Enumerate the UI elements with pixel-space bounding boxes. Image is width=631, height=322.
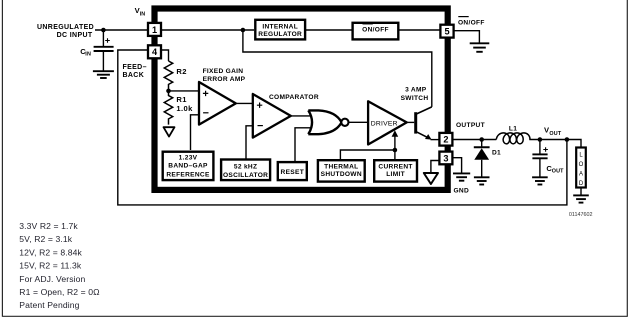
IC block outline U1 bbox=[155, 9, 448, 190]
bandgap reference block bbox=[163, 152, 214, 180]
op-amp error amplifier bbox=[199, 82, 236, 125]
capacitor CIN bbox=[80, 30, 113, 71]
op-amp comparator bbox=[253, 94, 291, 138]
svg-text:01147602: 01147602 bbox=[569, 212, 593, 218]
svg-text:DC INPUT: DC INPUT bbox=[57, 32, 93, 39]
svg-text:R1: R1 bbox=[176, 95, 187, 104]
svg-text:ON/OFF: ON/OFF bbox=[458, 19, 485, 26]
wire: pin 1 to internal regulator and on/off and pin 5 bbox=[161, 29, 254, 31]
ground: COUT bbox=[532, 177, 548, 184]
svg-text:LIMIT: LIMIT bbox=[386, 171, 405, 178]
node: VIN rail junction dot bbox=[241, 28, 246, 33]
svg-text:COMPARATOR: COMPARATOR bbox=[269, 94, 319, 101]
wire: error amp - input to bandgap bbox=[191, 115, 200, 150]
wire: VIN rail to 3 amp switch collector bbox=[243, 30, 432, 107]
node: input junction dot bbox=[101, 28, 106, 33]
inductor L1 bbox=[496, 125, 530, 143]
arrowhead into driver bbox=[392, 130, 399, 136]
wire: oscillator to comparator - input bbox=[246, 126, 253, 160]
svg-text:DRIVER: DRIVER bbox=[371, 120, 398, 127]
node: feedback junction bbox=[565, 137, 570, 142]
svg-text:UNREGULATED: UNREGULATED bbox=[37, 24, 94, 31]
label VOUT bbox=[544, 126, 562, 138]
ground: load bbox=[573, 195, 589, 202]
svg-text:R1 = Open, R2 = 0Ω: R1 = Open, R2 = 0Ω bbox=[19, 287, 100, 297]
svg-text:O: O bbox=[579, 162, 584, 168]
wire: error amp out to comparator bbox=[236, 102, 253, 104]
ground: D1 bbox=[474, 177, 490, 184]
svg-text:L1: L1 bbox=[509, 125, 517, 132]
svg-text:D: D bbox=[579, 181, 584, 187]
svg-text:15V, R2 = 11.3k: 15V, R2 = 11.3k bbox=[19, 261, 82, 271]
svg-text:1: 1 bbox=[152, 25, 157, 35]
wire: divider to error amp + input bbox=[169, 90, 200, 92]
svg-text:OUT: OUT bbox=[552, 169, 564, 175]
svg-text:BAND–GAP: BAND–GAP bbox=[168, 163, 208, 170]
svg-text:THERMAL: THERMAL bbox=[324, 164, 358, 171]
svg-text:OSCILLATOR: OSCILLATOR bbox=[223, 172, 268, 179]
capacitor COUT bbox=[532, 140, 564, 177]
load bbox=[576, 148, 586, 196]
svg-text:INTERNAL: INTERNAL bbox=[262, 23, 298, 30]
wire: output node bbox=[453, 139, 497, 141]
current limit block bbox=[374, 160, 417, 181]
transistor Q1 3 amp switch bbox=[407, 107, 440, 140]
ground: internal arrow near pin 3 bbox=[424, 173, 438, 184]
node: feedback divider junction bbox=[166, 89, 171, 94]
page frame left bbox=[1, 0, 3, 317]
driver buffer bbox=[368, 101, 407, 144]
wire: pin 5 to external ground bbox=[454, 31, 480, 43]
ground: pin 5 bbox=[470, 43, 490, 52]
node: protection junction dot bbox=[393, 148, 398, 153]
wire: feedback pin 4 to output node bbox=[118, 50, 567, 205]
pin 4 bbox=[148, 45, 161, 58]
svg-text:R2: R2 bbox=[176, 67, 187, 76]
svg-text:3.3V R2 = 1.7k: 3.3V R2 = 1.7k bbox=[19, 221, 78, 231]
svg-text:A: A bbox=[579, 172, 583, 178]
label: UNREGULATED DC INPUT bbox=[37, 24, 94, 39]
diode D1 bbox=[474, 140, 501, 177]
wire: reset to nor gate bbox=[295, 128, 312, 162]
svg-text:1.23V: 1.23V bbox=[179, 155, 198, 162]
svg-text:1.0k: 1.0k bbox=[176, 104, 193, 113]
svg-text:5: 5 bbox=[444, 27, 449, 37]
wire: pin 3 to external GND bbox=[453, 158, 462, 173]
label VIN bbox=[135, 6, 146, 18]
svg-text:BACK: BACK bbox=[123, 72, 145, 79]
svg-text:52 kHZ: 52 kHZ bbox=[234, 164, 257, 171]
label FIXED GAIN ERROR AMP bbox=[203, 68, 246, 83]
svg-text:ON/OFF: ON/OFF bbox=[362, 27, 389, 34]
svg-text:IN: IN bbox=[140, 11, 146, 17]
pin 2 bbox=[439, 133, 452, 146]
ground: analog arrow under R1 bbox=[164, 127, 175, 136]
svg-text:OUT: OUT bbox=[549, 131, 561, 137]
svg-text:4: 4 bbox=[152, 47, 158, 57]
node: diode junction bbox=[479, 137, 484, 142]
internal regulator block bbox=[255, 20, 305, 40]
svg-text:12V, R2 = 8.84k: 12V, R2 = 8.84k bbox=[19, 247, 82, 257]
svg-text:Patent Pending: Patent Pending bbox=[19, 300, 79, 310]
wire: pin 3 to internal ground arrow bbox=[431, 161, 440, 173]
svg-text:CURRENT: CURRENT bbox=[378, 164, 412, 171]
svg-text:GND: GND bbox=[454, 188, 470, 195]
svg-text:2: 2 bbox=[443, 135, 448, 145]
svg-text:SWITCH: SWITCH bbox=[401, 95, 429, 102]
oscillator block bbox=[221, 160, 270, 181]
thermal shutdown block bbox=[318, 160, 365, 181]
ground: CIN bbox=[93, 71, 114, 78]
svg-text:D1: D1 bbox=[492, 149, 501, 156]
svg-text:FIXED GAIN: FIXED GAIN bbox=[203, 68, 244, 75]
nor gate bbox=[308, 110, 348, 134]
wire: pin 4 to R2 bbox=[161, 50, 169, 61]
resistor R2 bbox=[164, 61, 187, 91]
svg-text:IN: IN bbox=[85, 52, 91, 58]
wire: comparator out to nor gate bbox=[291, 115, 312, 117]
on/off block bbox=[353, 23, 399, 40]
reset block bbox=[278, 162, 307, 180]
pin 3 bbox=[439, 152, 452, 165]
svg-text:REGULATOR: REGULATOR bbox=[258, 31, 302, 38]
svg-text:3 AMP: 3 AMP bbox=[405, 87, 427, 94]
svg-text:ERROR AMP: ERROR AMP bbox=[203, 76, 246, 83]
resistor R1 1.0k bbox=[164, 91, 193, 125]
svg-text:5V, R2 = 3.1k: 5V, R2 = 3.1k bbox=[19, 234, 72, 244]
wire: nor gate to driver bbox=[349, 121, 369, 123]
pin 5 bbox=[440, 25, 453, 38]
wire: thermal shutdown and current limit to driver bbox=[340, 135, 395, 160]
svg-text:OUTPUT: OUTPUT bbox=[456, 122, 485, 129]
notes text block bbox=[19, 221, 100, 310]
label FEED-BACK bbox=[123, 64, 147, 79]
wire: unregulated input to pin 1 bbox=[95, 29, 148, 31]
svg-text:3: 3 bbox=[443, 153, 448, 163]
svg-text:RESET: RESET bbox=[281, 169, 304, 176]
label 3 AMP SWITCH bbox=[401, 87, 429, 103]
ground: pin 3 external bbox=[453, 173, 470, 194]
node: cout junction bbox=[538, 137, 543, 142]
svg-text:REFERENCE: REFERENCE bbox=[166, 172, 210, 179]
svg-text:FEED–: FEED– bbox=[123, 64, 147, 71]
svg-text:SHUTDOWN: SHUTDOWN bbox=[321, 171, 362, 178]
pin 1 bbox=[148, 23, 161, 36]
label ON/OFF external bbox=[458, 17, 485, 27]
svg-text:For ADJ. Version: For ADJ. Version bbox=[19, 274, 85, 284]
